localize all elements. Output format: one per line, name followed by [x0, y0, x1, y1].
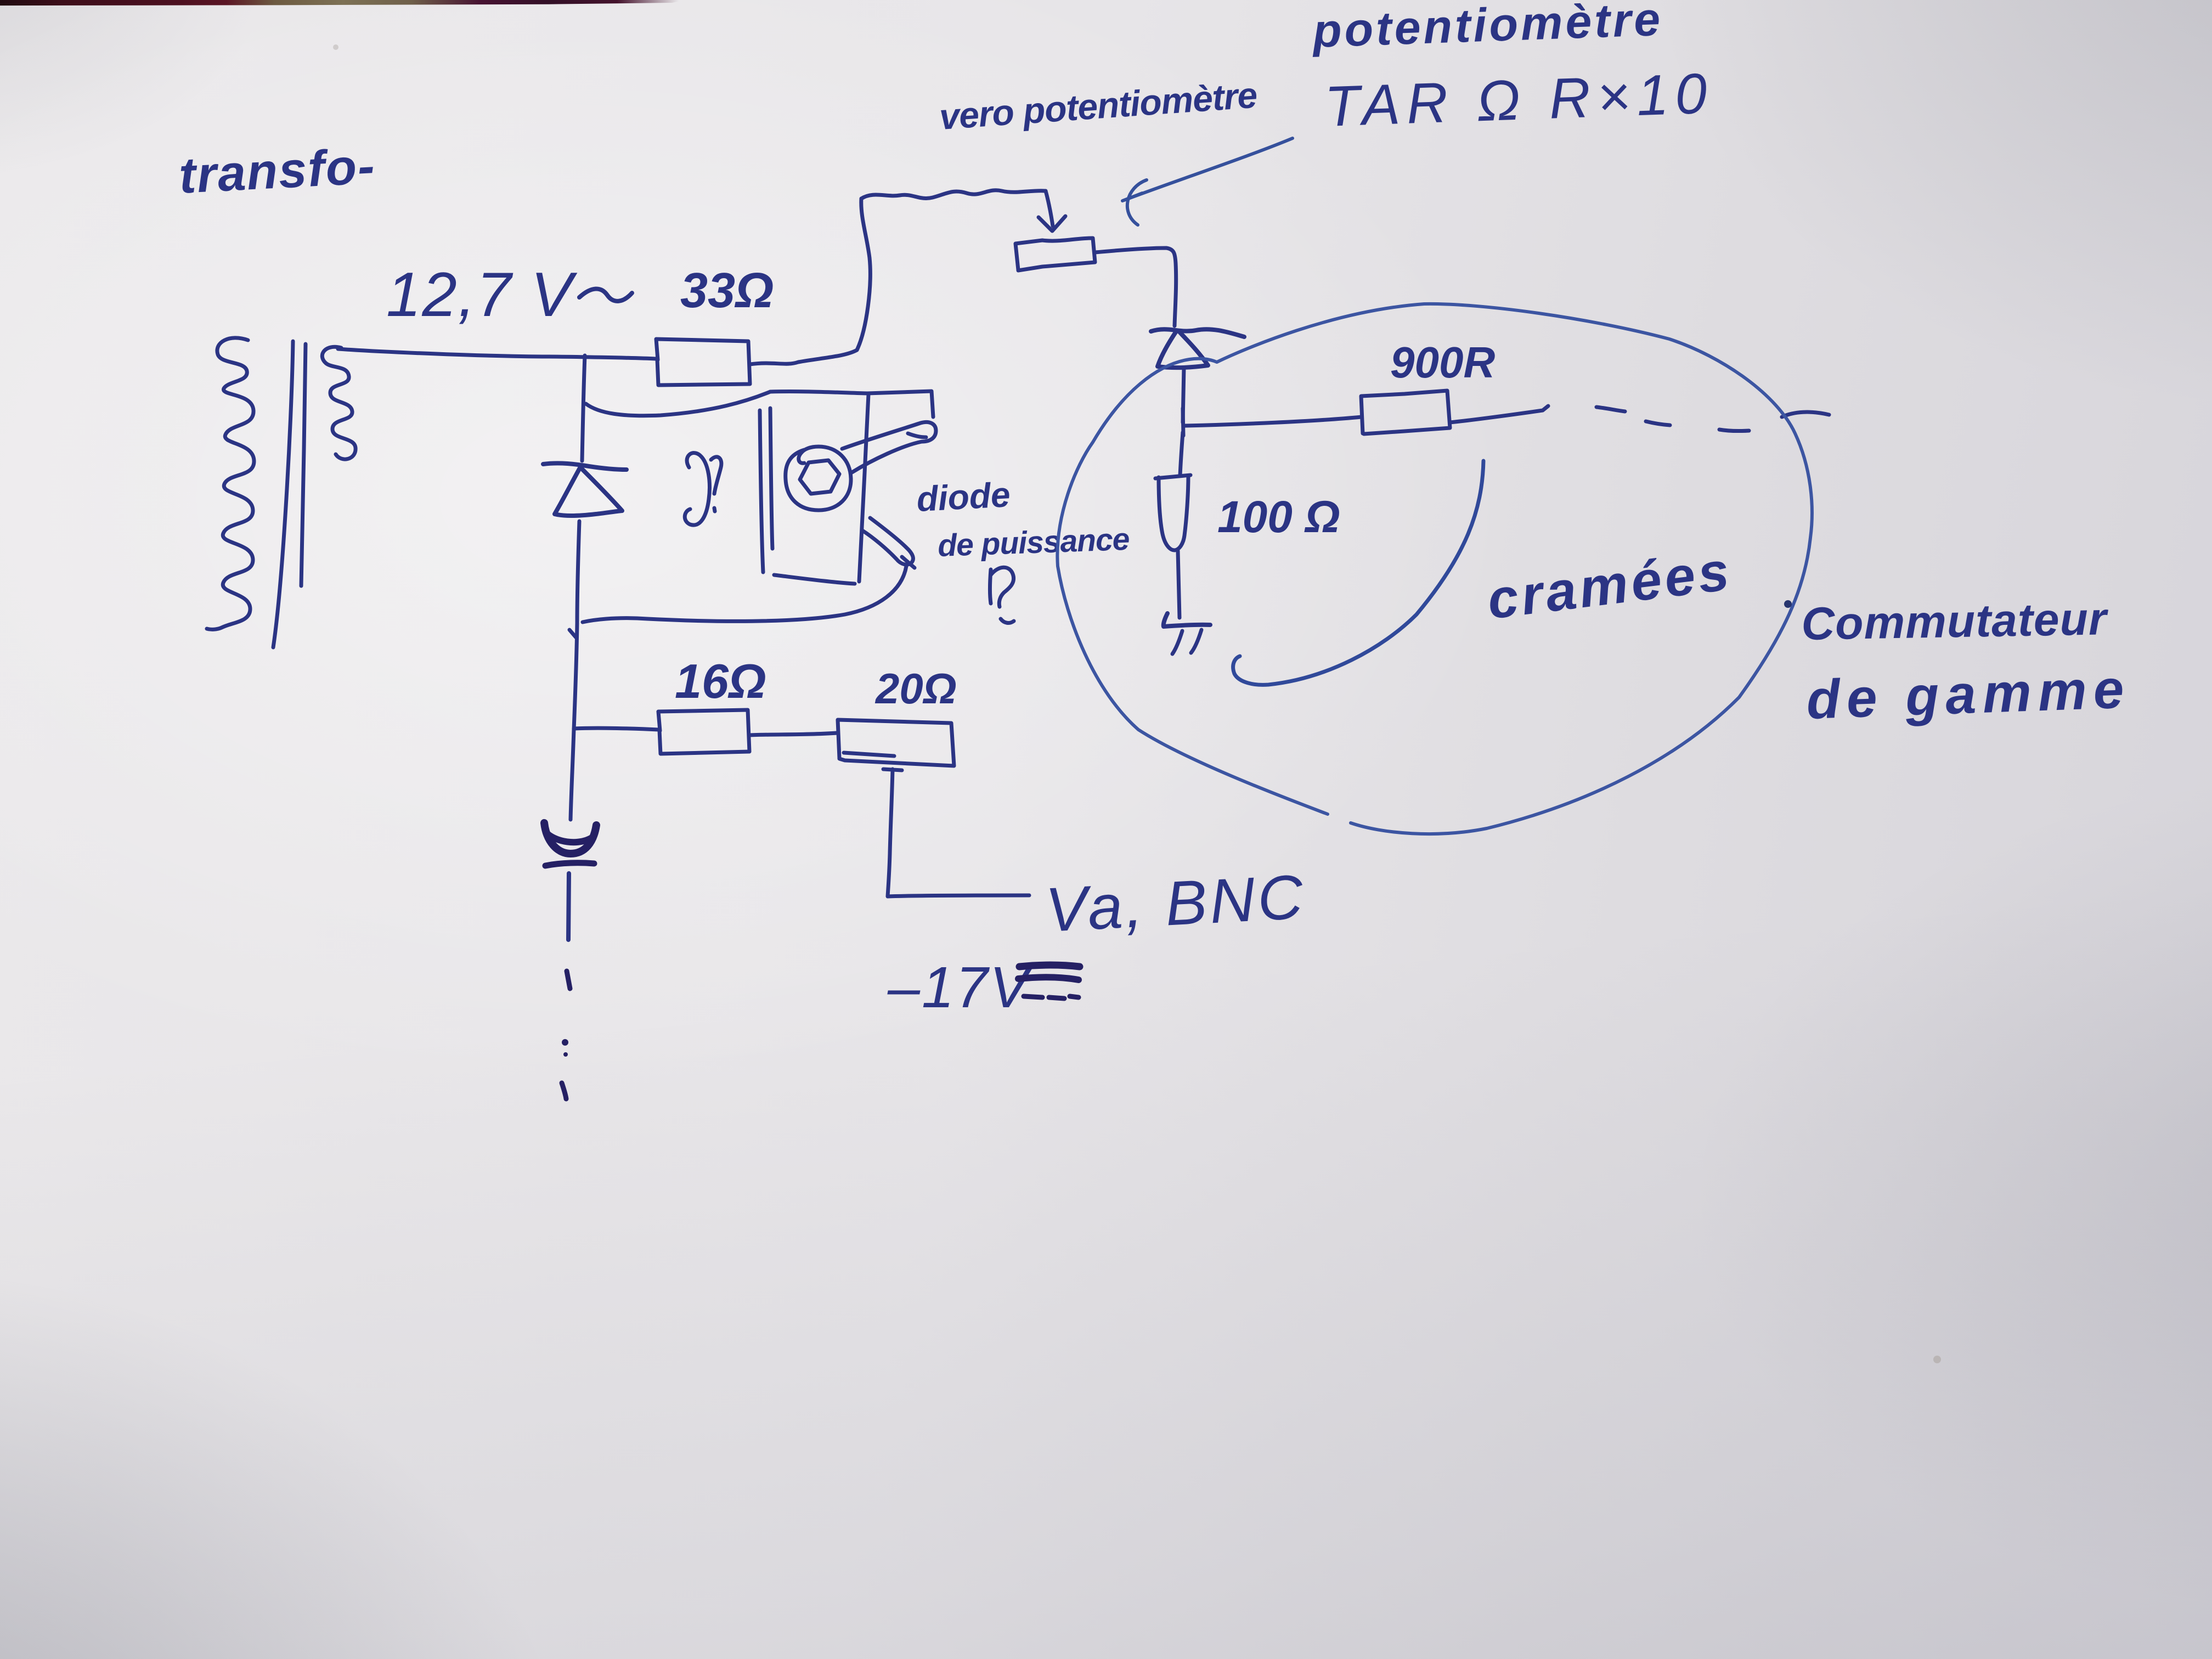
- wire 100R to ground: [1178, 551, 1180, 618]
- annotation arrow to potentiometer: [1122, 138, 1293, 201]
- wire node A down to zener: [582, 356, 585, 461]
- capacitor C1 top plate: [544, 823, 596, 854]
- wire D2 to node B: [1183, 368, 1184, 422]
- toggle switch S1 nut outer: [786, 447, 851, 510]
- toggle switch S1 lever: [842, 422, 936, 472]
- capacitor C1 bottom plate: [545, 863, 594, 866]
- battery symbol -17V: [1019, 965, 1080, 967]
- svg-text:potentiomètre: potentiomètre: [1311, 0, 1663, 58]
- toggle switch S1 left panel: [760, 410, 763, 572]
- wire rail to 16R: [574, 728, 658, 730]
- wire 33R to riser: [750, 350, 857, 364]
- wire 16R to 20R: [749, 733, 837, 735]
- resistor 900R: [1361, 391, 1450, 434]
- svg-text:–17V: –17V: [887, 955, 1033, 1020]
- svg-text:16Ω: 16Ω: [675, 654, 766, 708]
- potentiometer P1: [1015, 238, 1095, 270]
- toggle switch S1 body: [770, 391, 933, 584]
- range switch ellipse: [1057, 304, 1812, 834]
- transformer T1 secondary winding: [322, 347, 356, 459]
- transformer T1 core: [273, 341, 293, 647]
- label Je?: [685, 453, 709, 526]
- riser wire up to top run: [857, 199, 870, 350]
- diode D2 bar: [1151, 329, 1244, 337]
- junction swoop-rail: [569, 630, 576, 637]
- faint pencil speck: [1933, 1356, 1941, 1363]
- top bumpy wire to wiper arrow: [861, 190, 1046, 199]
- wiper arrow: [1046, 191, 1053, 226]
- wire 900R dashed continuation: [1450, 406, 1548, 422]
- svg-text:de gamme: de gamme: [1805, 658, 2131, 731]
- resistor 33R: [656, 339, 750, 385]
- label ?: [990, 567, 1014, 623]
- resistor 20R: [838, 720, 954, 766]
- svg-text:transfo-: transfo-: [178, 138, 377, 204]
- svg-text:12,7 V: 12,7 V: [386, 260, 578, 330]
- svg-text:20Ω: 20Ω: [874, 664, 957, 713]
- zener diode D1 bar: [543, 463, 627, 470]
- wire rail to switch S1: [586, 392, 770, 416]
- wire below capacitor: [568, 873, 569, 940]
- resistor 16R: [658, 710, 749, 754]
- diode D2 triangle: [1158, 331, 1208, 368]
- range switch wiper curve: [1233, 461, 1483, 685]
- wire secondary to node A and 33R: [338, 349, 656, 359]
- svg-text:33Ω: 33Ω: [680, 263, 774, 318]
- svg-text:Va, BNC: Va, BNC: [1044, 862, 1307, 945]
- svg-text:100 Ω: 100 Ω: [1217, 492, 1340, 542]
- transformer T1 primary winding: [207, 338, 254, 629]
- dashed continuation below: [567, 971, 570, 989]
- svg-text:diode: diode: [916, 475, 1011, 519]
- ground: [1164, 613, 1210, 627]
- wire zener down the left rail: [571, 521, 579, 820]
- node B wire to 900R: [1183, 408, 1361, 436]
- wire switch bottom swoop to rail: [583, 566, 906, 622]
- ink blob on ellipse edge: [1784, 600, 1792, 608]
- wire potentiometer to diode D2: [1095, 248, 1176, 326]
- zener diode D1 triangle: [555, 467, 622, 516]
- small dot below capacitor: [563, 1052, 568, 1057]
- svg-text:de puissance: de puissance: [937, 522, 1130, 563]
- toggle switch S1 lower tab: [862, 518, 913, 565]
- resistor 100R body: [1155, 475, 1190, 550]
- wire 20R down to BNC: [883, 769, 1029, 896]
- svg-text:cramées: cramées: [1484, 540, 1735, 631]
- svg-text:TAR Ω R×10: TAR Ω R×10: [1324, 61, 1714, 139]
- toggle switch S1 nut hexagon: [800, 460, 839, 494]
- svg-text:Commutateur: Commutateur: [1801, 592, 2109, 650]
- wire node B to 100R: [1180, 432, 1183, 476]
- svg-text:900R: 900R: [1390, 338, 1495, 387]
- svg-text:vero potentiomètre: vero potentiomètre: [938, 75, 1259, 137]
